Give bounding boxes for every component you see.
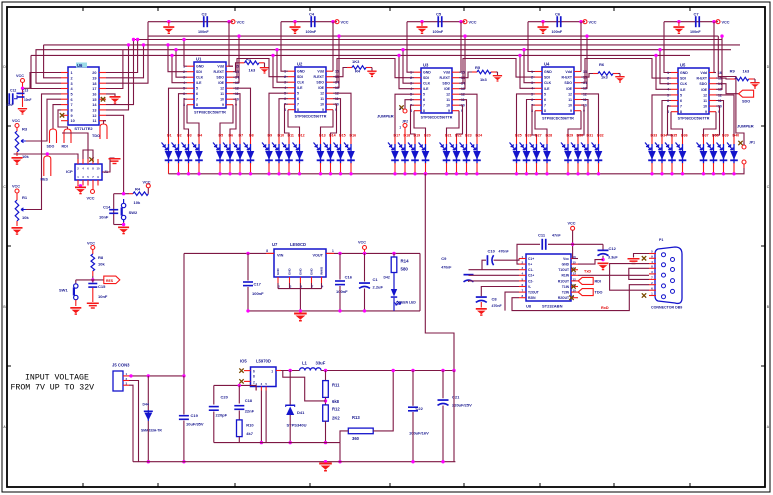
svg-text:GND: GND (562, 263, 570, 267)
wire U5 /LE riser (654, 54, 671, 90)
svg-text:4k7: 4k7 (246, 431, 253, 436)
svg-text:10nF: 10nF (24, 98, 31, 102)
svg-text:Vdd: Vdd (700, 71, 707, 75)
wire U6 pin3 to CLK bus (36, 50, 123, 83)
microcontroller U6 ST7LITE2 (61, 63, 106, 132)
svg-text:C14: C14 (103, 204, 111, 209)
svg-text:5: 5 (196, 87, 198, 91)
wire LED output staircase U4 (517, 94, 599, 137)
capacitor C22 100uF/16V (408, 371, 429, 464)
LED D5 (213, 134, 224, 174)
LED D9 (262, 134, 273, 174)
svg-text:11: 11 (320, 97, 324, 101)
wire Vdd riser U1 (229, 22, 233, 66)
svg-text:VCC: VCC (87, 197, 95, 201)
svg-text:/OE: /OE (318, 86, 325, 90)
svg-text:9: 9 (705, 110, 707, 114)
svg-text:FROM 7V UP TO 32V: FROM 7V UP TO 32V (11, 384, 95, 393)
buck regulator IO5 L5970D (240, 359, 281, 391)
svg-text:D21: D21 (445, 134, 452, 138)
svg-text:10nF: 10nF (6, 103, 13, 107)
wire Vdd riser U5 (714, 22, 716, 73)
svg-text:D14: D14 (329, 134, 336, 138)
wire LE50 ground rail (248, 253, 420, 311)
svg-text:R10: R10 (246, 423, 254, 428)
svg-text:U7: U7 (272, 242, 278, 247)
svg-text:D40: D40 (733, 134, 740, 138)
svg-text:R9: R9 (730, 69, 736, 74)
svg-text:Vdd: Vdd (565, 70, 572, 74)
LED driver IC U1 STP08CDC596 (183, 57, 239, 115)
svg-text:U2: U2 (297, 62, 303, 67)
LED D36 (676, 134, 688, 174)
resistor R-EXT near U4 (581, 62, 625, 83)
LED D1 (162, 134, 173, 174)
svg-text:R-EXT: R-EXT (562, 76, 573, 80)
svg-text:100uF/16V: 100uF/16V (409, 431, 429, 436)
port RDI (58, 110, 71, 149)
svg-text:12: 12 (573, 277, 577, 281)
svg-text:33uF: 33uF (316, 361, 326, 366)
LED D14 (324, 134, 336, 174)
wire U2 /LE riser (271, 54, 288, 88)
wire ICP top connections (62, 133, 93, 159)
resistor R8 10k (91, 254, 105, 276)
LED D39 (717, 134, 729, 174)
wire buck output (321, 369, 456, 372)
LED D40 (727, 134, 739, 174)
svg-text:10: 10 (568, 104, 572, 108)
svg-text:C16: C16 (345, 275, 353, 280)
svg-text:D19: D19 (414, 134, 421, 138)
svg-text:220pF: 220pF (216, 413, 228, 418)
svg-text:D4: D4 (198, 134, 203, 138)
svg-text:8: 8 (253, 375, 255, 379)
LED D16 (344, 134, 356, 174)
svg-text:D24: D24 (476, 134, 483, 138)
wire U3 CLK riser (401, 48, 414, 83)
svg-text:1k3: 1k3 (480, 77, 487, 82)
svg-text:CLK: CLK (544, 81, 552, 85)
svg-text:D9: D9 (268, 134, 273, 138)
svg-text:CONNECTOR DB9: CONNECTOR DB9 (651, 306, 682, 310)
svg-text:RES: RES (41, 178, 49, 182)
no-connect U8 pin11 (571, 284, 575, 288)
svg-text:L1: L1 (302, 361, 308, 366)
svg-text:T1IN: T1IN (562, 285, 570, 289)
wire U1 CLK riser (174, 48, 187, 77)
svg-text:12: 12 (92, 114, 96, 118)
no-connect U8 pin14 (571, 268, 575, 272)
svg-text:D27: D27 (535, 134, 542, 138)
wire SDO chain U1 to U2 (233, 59, 288, 78)
svg-text:9: 9 (448, 109, 450, 113)
svg-text:VCC: VCC (16, 74, 24, 78)
svg-text:Vdd: Vdd (217, 65, 224, 69)
wire DB9 pin5 ground (628, 254, 650, 265)
svg-text:7: 7 (423, 104, 425, 108)
svg-text:5: 5 (680, 93, 682, 97)
wire U1 pin1 riser (182, 38, 187, 66)
svg-text:D15: D15 (339, 134, 346, 138)
wire SDO chain U4 to U5 (581, 59, 671, 83)
wire DB9 RTS-CTS loop (629, 268, 649, 279)
svg-text:D34: D34 (661, 134, 668, 138)
svg-text:10nF: 10nF (99, 215, 109, 220)
svg-text:GND: GND (423, 71, 431, 75)
wire buck ground rail (214, 443, 342, 464)
ground C8 (476, 308, 487, 316)
svg-text:V-: V- (528, 285, 531, 289)
svg-text:D39: D39 (722, 134, 729, 138)
wire output right leg (453, 371, 455, 462)
svg-text:8: 8 (297, 108, 299, 112)
port TDO (92, 121, 107, 139)
capacitor C18 22nF (234, 384, 254, 420)
LED D2 (172, 134, 183, 174)
svg-text:1k3: 1k3 (743, 69, 750, 74)
port TDO at U8 (578, 289, 602, 296)
svg-text:C2+: C2+ (528, 274, 534, 278)
svg-text:C7: C7 (694, 12, 700, 17)
svg-text:1: 1 (71, 71, 73, 75)
svg-text:7: 7 (71, 103, 73, 107)
LED D6 (223, 134, 234, 174)
wire U8 GND pin (578, 260, 603, 265)
svg-text:D1: D1 (167, 134, 172, 138)
svg-text:8: 8 (266, 249, 268, 253)
svg-text:GND: GND (310, 268, 314, 276)
svg-text:C1-: C1- (528, 268, 533, 272)
LED driver IC U2 STP08CDC596 (284, 62, 339, 119)
svg-text:JUMPER: JUMPER (737, 124, 754, 129)
svg-text:D8: D8 (249, 134, 254, 138)
svg-text:6: 6 (680, 99, 682, 103)
svg-text:GREEN LED: GREEN LED (396, 301, 416, 305)
wire Vdd riser U4 (580, 22, 582, 72)
svg-text:D37: D37 (702, 134, 709, 138)
svg-text:10k: 10k (22, 215, 29, 220)
wire bus GND net (134, 39, 723, 41)
svg-text:D28: D28 (546, 134, 553, 138)
svg-text:CLK: CLK (680, 82, 688, 86)
svg-text:SDO: SDO (442, 82, 450, 86)
svg-text:U1: U1 (196, 57, 202, 62)
capacitor C15 10nF (88, 281, 108, 302)
no-connect U8 pin9 (569, 296, 573, 300)
svg-text:C17: C17 (254, 282, 262, 287)
svg-text:12: 12 (220, 87, 224, 91)
svg-text:C22: C22 (416, 406, 424, 411)
ground power section (319, 460, 332, 472)
svg-text:16: 16 (92, 93, 96, 97)
LED D32 (592, 134, 604, 174)
svg-text:8: 8 (680, 110, 682, 114)
LED D22 (450, 134, 462, 174)
svg-text:100nF: 100nF (433, 30, 444, 34)
svg-text:47nF: 47nF (552, 234, 561, 238)
no-connect J1 (89, 157, 93, 161)
wire U6 pin17 riser (106, 50, 123, 89)
svg-text:1: 1 (332, 249, 334, 253)
svg-text:6: 6 (297, 97, 299, 101)
svg-text:15: 15 (573, 261, 577, 265)
LED D10 (272, 134, 284, 174)
svg-text:2K2: 2K2 (332, 416, 340, 421)
capacitors C12 C13 oscillator (6, 89, 31, 108)
svg-text:8: 8 (423, 109, 425, 113)
svg-text:/LE: /LE (544, 87, 550, 91)
svg-text:R3: R3 (22, 127, 28, 132)
connector J1 ICP header (66, 159, 108, 186)
svg-text:R-EXT: R-EXT (214, 70, 225, 74)
svg-text:C12: C12 (609, 246, 617, 251)
svg-text:10: 10 (320, 103, 324, 107)
LED D30 (571, 134, 583, 174)
LED D8 (244, 134, 255, 174)
svg-text:RDI: RDI (595, 279, 602, 283)
capacitor C5 100nF with VCC and ground (407, 12, 477, 35)
svg-text:10k: 10k (98, 262, 105, 267)
svg-text:R5: R5 (475, 65, 481, 70)
resistor R4 10k pullup (129, 181, 151, 206)
svg-text:D13: D13 (319, 134, 326, 138)
LED D35 (665, 134, 677, 174)
svg-text:SDO: SDO (47, 145, 55, 149)
LED D24 (470, 134, 482, 174)
svg-text:T2IN: T2IN (562, 291, 570, 295)
wire Vdd riser U2 (332, 22, 334, 71)
svg-text:11: 11 (703, 99, 707, 103)
svg-text:STP08CDC596TTR: STP08CDC596TTR (194, 111, 226, 115)
wire U6 pin20 riser (106, 38, 139, 73)
voltage regulator U7 LE50CD (266, 242, 334, 289)
svg-text:12: 12 (446, 93, 450, 97)
wire input negative (129, 381, 139, 462)
svg-text:/OE: /OE (566, 87, 573, 91)
svg-text:3.3uF: 3.3uF (608, 256, 618, 260)
svg-text:12: 12 (703, 93, 707, 97)
capacitor C3 100nF with VCC and ground (148, 12, 245, 35)
svg-text:12: 12 (320, 92, 324, 96)
svg-text:9: 9 (71, 114, 73, 118)
svg-text:D11: D11 (288, 134, 294, 138)
wire U1 SDI riser (166, 43, 187, 71)
LED D19 (408, 134, 420, 174)
svg-text:1K3: 1K3 (352, 59, 360, 64)
svg-text:20: 20 (92, 71, 96, 75)
svg-text:D5: D5 (219, 134, 224, 138)
LED D23 (460, 134, 472, 174)
svg-text:1: 1 (271, 369, 273, 373)
svg-text:5: 5 (544, 92, 546, 96)
svg-text:D25: D25 (515, 134, 522, 138)
svg-text:R4: R4 (135, 187, 141, 192)
svg-text:C6: C6 (555, 12, 561, 17)
svg-text:7: 7 (196, 98, 198, 102)
svg-text:SW2: SW2 (129, 210, 138, 215)
schottky diode D41 STPS340U (286, 371, 307, 445)
svg-text:GND: GND (276, 268, 280, 276)
LED D26 (520, 134, 532, 174)
svg-text:/LE: /LE (423, 87, 429, 91)
svg-text:JP1: JP1 (749, 141, 755, 145)
svg-text:P1: P1 (659, 238, 663, 242)
svg-text:6k8: 6k8 (332, 399, 340, 404)
wire U6 pin4 to /LE bus (31, 55, 61, 88)
resistor R-EXT near U2 (333, 59, 377, 77)
wire U6 pin2 to SDI bus (44, 45, 61, 78)
svg-text:D30: D30 (577, 134, 584, 138)
LED driver IC U5 STP08CDC596 (667, 63, 722, 121)
svg-text:GND: GND (297, 70, 305, 74)
wire input positive (129, 374, 186, 377)
svg-text:11: 11 (446, 98, 450, 102)
svg-text:C15: C15 (98, 284, 106, 289)
jumper JP1 (718, 36, 755, 174)
svg-text:J5 CON3: J5 CON3 (112, 363, 130, 368)
svg-text:12: 12 (568, 92, 572, 96)
svg-text:VCC: VCC (143, 181, 151, 185)
svg-text:D22: D22 (455, 134, 462, 138)
wire U4 CLK riser (522, 48, 535, 83)
svg-text:100nF: 100nF (198, 30, 209, 34)
wire IO5 bottom pins (214, 385, 266, 444)
capacitor C1 2.2uF (359, 253, 384, 312)
wire SDO chain U2 to U3 (333, 59, 414, 83)
svg-text:10: 10 (71, 119, 75, 123)
LED D31 (581, 134, 593, 174)
svg-text:17: 17 (92, 87, 96, 91)
svg-text:R1IN: R1IN (561, 274, 569, 278)
svg-text:C11: C11 (538, 233, 546, 238)
svg-text:13: 13 (573, 272, 577, 276)
svg-text:SDO: SDO (699, 82, 707, 86)
svg-text:/OE: /OE (701, 88, 708, 92)
LED D28 (540, 134, 552, 174)
svg-text:RxD: RxD (601, 306, 609, 310)
svg-text:7: 7 (680, 105, 682, 109)
svg-text:VCC: VCC (87, 242, 95, 246)
svg-text:RES: RES (106, 279, 114, 283)
svg-text:/OE: /OE (444, 87, 451, 91)
svg-text:ICP: ICP (66, 169, 73, 174)
no-connect IO5 pin6 (239, 368, 243, 372)
LED D25 (510, 134, 522, 174)
wire LED output staircase U2 (269, 93, 351, 137)
svg-text:STP08CDC596TTR: STP08CDC596TTR (421, 116, 453, 120)
capacitor C8 470nF (476, 287, 519, 308)
jumper JP2 (377, 105, 408, 137)
wire U4 pin1 riser (528, 22, 535, 72)
wire U6 pin13 riser (106, 43, 130, 110)
wire U3 pin1 riser (407, 22, 414, 72)
wire R3 wiper to U6 pin6 (26, 99, 61, 141)
TVS diode D44 SMAJ33A-TR (141, 376, 162, 464)
LED D37 (697, 134, 709, 174)
svg-text:INHIB: INHIB (320, 266, 324, 275)
svg-text:LE50CD: LE50CD (290, 242, 306, 247)
svg-text:STPS340U: STPS340U (287, 423, 307, 428)
port RES (41, 156, 51, 182)
svg-text:580: 580 (401, 267, 409, 272)
svg-text:3: 3 (71, 82, 73, 86)
svg-text:D6: D6 (229, 134, 234, 138)
switch SW1 (59, 284, 78, 306)
svg-text:SDI: SDI (680, 77, 686, 81)
svg-text:TxD: TxD (584, 269, 591, 273)
wire LE50 input rail (184, 253, 420, 376)
LED D4 (192, 134, 203, 174)
svg-text:D12: D12 (298, 134, 305, 138)
svg-text:D41: D41 (297, 410, 305, 415)
svg-text:VCC: VCC (469, 20, 477, 24)
LED D34 (655, 134, 667, 174)
svg-text:SDI: SDI (544, 76, 550, 80)
wire R8 node (76, 276, 104, 284)
wire U6 pin1 to VCC (24, 73, 61, 89)
svg-text:10k: 10k (134, 200, 141, 205)
no-connect U6 pin9 (60, 113, 64, 117)
svg-text:11: 11 (92, 119, 96, 123)
svg-text:100nF: 100nF (252, 291, 264, 296)
svg-text:R14: R14 (401, 259, 410, 264)
wire U2 pin1 riser (281, 22, 288, 71)
svg-text:CLK: CLK (196, 76, 204, 80)
svg-text:220uF/25V: 220uF/25V (452, 403, 472, 408)
svg-text:8: 8 (544, 109, 546, 113)
svg-text:2: 2 (410, 76, 412, 80)
wire U6 pin12 to reset node (106, 115, 124, 193)
svg-text:C18: C18 (245, 398, 253, 403)
LED D7 (233, 134, 244, 174)
wire Vdd riser U3 (459, 22, 461, 72)
ground SW2 (118, 227, 129, 235)
svg-text:U5: U5 (680, 63, 686, 68)
wire LED supply rail (169, 172, 744, 175)
svg-text:D20: D20 (424, 134, 431, 138)
svg-text:22nF: 22nF (245, 409, 255, 414)
svg-text:19: 19 (92, 76, 96, 80)
svg-text:2: 2 (284, 75, 286, 79)
svg-text:STP08CDC596TTR: STP08CDC596TTR (678, 117, 710, 121)
LED D20 (419, 134, 431, 174)
wire DB9 DTR-DSR loop (610, 264, 649, 291)
svg-text:R2IN: R2IN (528, 296, 536, 300)
wire bus CLK (123, 49, 731, 51)
capacitor C6 100nF with VCC and ground (528, 12, 597, 35)
svg-text:R12: R12 (332, 407, 340, 412)
wire U4 /LE riser (518, 54, 535, 89)
svg-text:100nF: 100nF (336, 289, 348, 294)
connector P1 DB9 (649, 238, 682, 310)
svg-text:SDI: SDI (196, 70, 202, 74)
svg-text:STP08CDC596TTR: STP08CDC596TTR (542, 117, 574, 121)
svg-text:CLK: CLK (297, 81, 305, 85)
wire U6 pin14 riser (106, 38, 135, 105)
ground oscillator (18, 108, 27, 115)
svg-text:VOUT: VOUT (312, 254, 323, 258)
resistor R-EXT near U3 (459, 65, 502, 82)
LED D42 green (384, 273, 417, 311)
wire U1 /LE riser (170, 54, 187, 83)
svg-text:C1+: C1+ (528, 257, 534, 261)
LED D18 (398, 134, 410, 174)
svg-text:R-EXT: R-EXT (314, 75, 325, 79)
svg-text:R2OUT: R2OUT (558, 296, 569, 300)
svg-text:470nF: 470nF (441, 266, 452, 270)
svg-text:9: 9 (322, 108, 324, 112)
